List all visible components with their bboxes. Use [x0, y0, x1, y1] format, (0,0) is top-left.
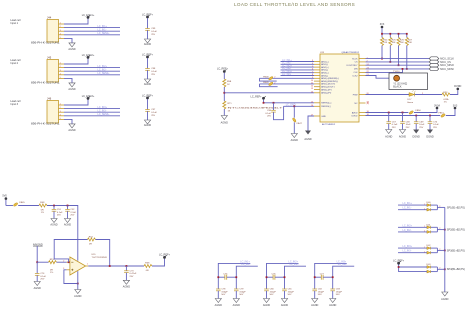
- svg-text:AGND: AGND: [399, 135, 406, 138]
- svg-text:LC_IN2+: LC_IN2+: [98, 65, 108, 68]
- svg-text:CLK: CLK: [353, 72, 358, 74]
- svg-text:AIN3(+): AIN3(+): [321, 72, 329, 75]
- svg-text:C98: C98: [151, 68, 156, 70]
- svg-text:C75: C75: [223, 273, 228, 275]
- svg-text:J46: J46: [47, 96, 52, 100]
- wire pin3 net LC_IN1-: [64, 28, 120, 31]
- svg-text:25V: 25V: [151, 74, 155, 76]
- wire C96 lower lead to LC_GND riser: [274, 106, 284, 119]
- ferrite bead FB45: [13, 202, 25, 207]
- capacitor C98 0.1uF 25V: [145, 68, 157, 76]
- svg-text:AIN5(-)/IOUT1: AIN5(-)/IOUT1: [321, 86, 335, 89]
- svg-text:GND: GND: [321, 116, 326, 118]
- svg-text:LC_REF+: LC_REF+: [159, 254, 171, 257]
- svg-text:0.1uF: 0.1uF: [265, 113, 271, 115]
- wire op-amp output: [88, 265, 144, 267]
- svg-text:AIN1(-): AIN1(-): [321, 63, 328, 66]
- node V- rail junction: [77, 283, 79, 285]
- node bus junction R26: [398, 64, 400, 66]
- svg-text:AIN3(-): AIN3(-): [321, 74, 328, 77]
- capacitor C79 150pF 50V: [234, 289, 246, 299]
- node CLK jog junction: [402, 68, 404, 70]
- capacitor C52 2.2uF 25V: [65, 206, 76, 219]
- pin 5 of J44: [59, 37, 65, 39]
- svg-text:DOUT/RDY: DOUT/RDY: [347, 65, 358, 67]
- wire C74 upper lead: [36, 262, 38, 273]
- svg-text:C96: C96: [267, 110, 272, 112]
- svg-text:LC_IN1+: LC_IN1+: [403, 202, 413, 205]
- capacitor C68 10uF 25V: [400, 113, 411, 130]
- resistor R24 10K: [381, 34, 389, 59]
- resistor R58 0R: [144, 263, 152, 272]
- wire net MCU_MISO: [366, 64, 430, 66]
- svg-text:0R: 0R: [146, 270, 149, 272]
- power LC_REF+ above C98: [142, 54, 154, 59]
- svg-text:3V3A: 3V3A: [434, 104, 440, 107]
- svg-text:5V0: 5V0: [2, 195, 7, 198]
- wire R58 to LC_REF+ power: [152, 259, 165, 266]
- pin AIN5(-)/IOUT1 of U13: [311, 85, 336, 88]
- pin 3 of J44: [59, 30, 65, 32]
- pin AIN6(-)/P0 of U13: [311, 92, 332, 95]
- svg-text:C97: C97: [151, 109, 156, 111]
- node bus junction R25: [389, 61, 391, 63]
- diode D40 dual: [427, 202, 432, 211]
- wire FB49 input stub: [260, 84, 278, 87]
- note: Load cell Input 1: [10, 19, 20, 25]
- pin 2 of J45: [59, 66, 65, 68]
- svg-text:LC_IN3-: LC_IN3-: [98, 109, 107, 112]
- svg-text:LC_REF+: LC_REF+: [217, 68, 229, 71]
- port MCU_CS: [429, 60, 451, 64]
- svg-text:856-PH-K-S227UNL: 856-PH-K-S227UNL: [31, 123, 60, 126]
- wire LC_GND down to FB47: [293, 106, 295, 117]
- pin CS of U13: [355, 61, 369, 64]
- power LC_REF+ output: [159, 254, 171, 259]
- node C67 junction: [388, 112, 390, 114]
- svg-text:AGND: AGND: [215, 304, 222, 307]
- wire net LC_IN2+ to U13: [281, 64, 315, 67]
- svg-text:0.1uF: 0.1uF: [151, 71, 157, 73]
- node rail junction R27: [406, 33, 408, 35]
- wire power stem to REFIN1+ net: [263, 100, 265, 103]
- svg-text:150pF: 150pF: [318, 291, 325, 293]
- svg-text:TLV271CDBVR: TLV271CDBVR: [92, 257, 108, 259]
- diode D42 dual: [427, 245, 432, 254]
- svg-text:R48: R48: [40, 202, 45, 204]
- wire FB50 to 3V3A power: [414, 109, 437, 112]
- capacitor C67 0.1uF 25V: [386, 113, 398, 130]
- svg-text:LC_EXC1+: LC_EXC1+: [82, 14, 95, 17]
- wire net LC_IN2- to U13: [281, 67, 315, 70]
- svg-text:C80: C80: [270, 289, 275, 291]
- resistor R52 0R: [88, 236, 96, 245]
- svg-text:RT1: RT1: [228, 103, 233, 105]
- wire D43 common to bus: [431, 267, 445, 272]
- svg-text:LC_REF+: LC_REF+: [393, 259, 405, 262]
- pin CLK of U13: [353, 71, 369, 74]
- wire C96 upper lead: [273, 103, 275, 111]
- capacitor C69 10uF 25V: [414, 116, 425, 130]
- svg-text:AGND: AGND: [441, 298, 448, 301]
- wire feedback right leg: [96, 240, 110, 267]
- svg-text:FB50: FB50: [416, 110, 422, 112]
- ground AGND under FB47: [291, 134, 298, 143]
- wire net LC_IN2- group 2: [285, 263, 307, 289]
- wire thermistor node to U13 AIN6: [224, 92, 314, 94]
- pin AIN5(+)/IOUT2 of U13: [311, 83, 336, 86]
- wire pin5 to ground: [64, 119, 72, 124]
- svg-text:LC_IN2-: LC_IN2-: [98, 68, 107, 71]
- wire pin4 net LC_SEN3+: [64, 113, 120, 116]
- wire power to C98: [147, 58, 149, 68]
- pin DIN of U13: [354, 68, 370, 71]
- wire pin4 net LC_SEN1+: [64, 32, 120, 35]
- svg-text:Input 1: Input 1: [10, 22, 18, 25]
- svg-text:13: 13: [311, 88, 314, 90]
- svg-text:0.1uF: 0.1uF: [392, 124, 398, 126]
- node LC_REF stem junction: [263, 102, 265, 104]
- wire LC_REF+ to D43 upper pin: [399, 266, 427, 268]
- svg-text:AGND: AGND: [281, 304, 288, 307]
- svg-text:NC: NC: [354, 103, 358, 105]
- pin REFIN1(+) of U13: [311, 102, 332, 105]
- svg-text:LC_SEN3+: LC_SEN3+: [98, 113, 111, 116]
- svg-text:C68: C68: [406, 122, 411, 124]
- wire net LC_IN3- group 3: [333, 263, 355, 289]
- node C51 junction: [53, 205, 55, 207]
- svg-text:25V: 25V: [151, 115, 155, 117]
- svg-text:25V: 25V: [151, 34, 155, 36]
- wire pin2 net LC_IN3+: [64, 106, 120, 109]
- svg-text:25V: 25V: [392, 127, 396, 129]
- svg-text:C79: C79: [239, 289, 244, 291]
- pin 1 of J45: [59, 63, 65, 65]
- wire pin2 net LC_IN1+: [64, 25, 120, 28]
- ground AGND under J45: [68, 83, 75, 91]
- wire U13 PSW row: [366, 94, 410, 96]
- node bus junction R24: [381, 58, 383, 60]
- ground AGND under C80: [263, 299, 270, 308]
- pin NC of U13: [354, 102, 369, 105]
- svg-text:AIN2(+): AIN2(+): [321, 66, 329, 69]
- wire net MCU_CS: [366, 61, 430, 63]
- svg-text:C77: C77: [320, 273, 325, 275]
- wire C99 to ground: [147, 30, 149, 39]
- svg-text:AGND: AGND: [34, 287, 41, 290]
- wire net LC_IN3+ to U13: [281, 70, 315, 73]
- ground AGND under J44: [68, 43, 75, 51]
- svg-text:0.1uF: 0.1uF: [151, 112, 157, 114]
- pin 3 of J46: [59, 111, 65, 113]
- svg-text:AGND: AGND: [311, 304, 318, 307]
- svg-text:U15: U15: [92, 254, 97, 256]
- svg-text:0.47uF: 0.47uF: [130, 273, 137, 275]
- pin DVDD of U13: [352, 114, 370, 117]
- node rail junction R26: [398, 33, 400, 35]
- svg-text:LC_IN1-: LC_IN1-: [403, 207, 412, 210]
- ground AGND under C73: [123, 280, 130, 288]
- pin AVDD of U13: [352, 111, 370, 114]
- svg-text:150pF: 150pF: [270, 291, 277, 293]
- svg-text:R52: R52: [89, 236, 94, 238]
- diode D43 dual: [427, 264, 432, 273]
- wire net LC_IN1+ group 1: [218, 260, 250, 289]
- svg-text:AGND: AGND: [291, 139, 298, 142]
- svg-text:AGND: AGND: [221, 122, 228, 125]
- wire pin5 to ground: [64, 78, 72, 83]
- node C76 left junction: [266, 276, 268, 278]
- ground AGND under C99: [144, 39, 151, 46]
- wire AVDD rail: [366, 112, 409, 114]
- svg-text:R73: R73: [443, 92, 448, 94]
- pin 5 of J46: [59, 118, 65, 120]
- svg-text:10: 10: [311, 80, 314, 82]
- pin 1 of J46: [59, 104, 65, 106]
- pin 5 of J45: [59, 77, 65, 79]
- capacitor C51 0.1uF 25V: [52, 206, 63, 219]
- svg-text:FB48: FB48: [263, 76, 269, 78]
- power LC_EXC1+: [82, 14, 95, 19]
- pin 4 of J46: [59, 114, 65, 116]
- wire pin3 net LC_IN3-: [64, 109, 120, 112]
- capacitor C99 0.1uF 25V: [145, 28, 157, 36]
- node rail junction R25: [389, 33, 391, 35]
- svg-text:LC_SEN1+: LC_SEN1+: [98, 32, 111, 35]
- wire net LC_IN1- to U13: [281, 62, 315, 65]
- wire op-amp V- to ground: [77, 271, 79, 289]
- svg-text:50V: 50V: [336, 294, 340, 296]
- svg-text:TY010: TY010: [393, 71, 400, 73]
- svg-text:AGND: AGND: [64, 224, 71, 227]
- wire RT1 to ground: [223, 109, 225, 116]
- ground AGND under C81: [281, 299, 288, 308]
- capacitor C77 bridge: [315, 273, 333, 279]
- wire pin1 to excitation power: [64, 100, 88, 105]
- svg-text:0.1uF: 0.1uF: [57, 212, 63, 214]
- wire D42 common to bus: [431, 248, 445, 253]
- svg-text:LC_REF+: LC_REF+: [142, 95, 154, 98]
- svg-text:J44: J44: [47, 15, 52, 19]
- svg-text:AD7794BRUZ: AD7794BRUZ: [322, 123, 336, 126]
- node FB47 junction: [293, 105, 295, 107]
- svg-text:1K: 1K: [228, 110, 231, 112]
- svg-text:SP1(B1+B2,PS): SP1(B1+B2,PS): [447, 206, 465, 209]
- capacitor C97 0.1uF 25V: [145, 109, 157, 117]
- wire R48 to op-amp V+: [47, 206, 78, 261]
- ferrite bead FB50: [409, 110, 422, 114]
- wire power to C99: [147, 18, 149, 28]
- svg-text:LC_SEN2+: LC_SEN2+: [98, 72, 111, 75]
- op-amp/ADC U13 AD7794BRUZ body: [320, 51, 360, 126]
- svg-text:0.1uF: 0.1uF: [151, 31, 157, 33]
- wire C97 to ground: [147, 111, 149, 120]
- svg-text:25V: 25V: [40, 279, 44, 281]
- power LC_REF+ above C99: [142, 14, 154, 19]
- pin CLK2 of U13: [352, 74, 369, 77]
- svg-text:1%: 1%: [41, 212, 44, 214]
- svg-text:LC_IN2-: LC_IN2-: [290, 263, 299, 266]
- svg-text:DGND: DGND: [413, 135, 421, 138]
- svg-text:AGND: AGND: [144, 124, 151, 127]
- node C52 junction: [67, 205, 69, 207]
- pin 2 of J44: [59, 26, 65, 28]
- wire net LC_IN1+ to D40: [398, 202, 427, 206]
- pin AIN3(-) of U13: [312, 74, 328, 77]
- svg-text:AGND: AGND: [50, 224, 57, 227]
- diode D41 dual: [427, 224, 432, 233]
- capacitor C76 bridge: [267, 273, 285, 279]
- wire FB51 to 3V3 power: [446, 109, 455, 115]
- resistor R27 10K: [405, 34, 413, 69]
- power LC_REF+ above R5B: [217, 68, 229, 73]
- svg-text:FB51: FB51: [439, 112, 445, 114]
- svg-text:50V: 50V: [221, 294, 225, 296]
- node REFIN junction: [223, 92, 225, 94]
- svg-text:LC_IN3-: LC_IN3-: [403, 250, 412, 253]
- LED D17 Green: [407, 90, 424, 104]
- ground AGND under C68: [399, 130, 406, 139]
- wire U13 GND pin to ground: [308, 116, 314, 131]
- svg-text:150pF: 150pF: [239, 291, 246, 293]
- svg-text:1%: 1%: [444, 102, 447, 104]
- wire C98 to ground: [147, 70, 149, 79]
- svg-text:AGND: AGND: [68, 88, 75, 91]
- svg-text:C69: C69: [419, 122, 424, 124]
- svg-text:C67: C67: [392, 122, 397, 124]
- pin AIN1(-) of U13: [312, 63, 328, 66]
- svg-text:AIN4(-)/REFIN2(-): AIN4(-)/REFIN2(-): [321, 80, 338, 83]
- wire non-inverting input to V- rail: [64, 270, 78, 284]
- connector J44: [31, 15, 60, 44]
- connector J46: [31, 96, 60, 125]
- node bus D41: [444, 229, 446, 231]
- svg-text:FB45: FB45: [19, 202, 25, 204]
- svg-text:0R: 0R: [89, 243, 92, 245]
- svg-text:AIN5(+)/IOUT2: AIN5(+)/IOUT2: [321, 83, 336, 86]
- svg-text:REFIN1(-): REFIN1(-): [321, 106, 331, 108]
- svg-text:AGND: AGND: [74, 295, 81, 298]
- svg-text:1: 1: [87, 264, 89, 266]
- ground AGND under RT1: [221, 116, 228, 125]
- capacitor C74 0.1uF 25V: [35, 273, 47, 281]
- svg-text:25V: 25V: [70, 215, 74, 217]
- wire D41 common to bus: [431, 227, 445, 232]
- resistor R26 10K: [397, 34, 405, 65]
- pin SCLK of U13: [352, 57, 368, 60]
- wire node to R112: [37, 261, 48, 263]
- svg-text:3V3: 3V3: [453, 104, 458, 107]
- ground AGND under C82: [311, 299, 318, 308]
- wire net LC_GND to U13 REFIN1-: [284, 103, 314, 106]
- node bus D43: [444, 268, 446, 270]
- svg-text:MCU_MISO: MCU_MISO: [440, 64, 454, 67]
- svg-text:AIN6(+)/P1: AIN6(+)/P1: [321, 88, 332, 91]
- svg-text:10uF: 10uF: [406, 124, 412, 126]
- wire AINGND down to R112 node: [36, 246, 38, 262]
- port MCU_MOSI: [429, 67, 454, 71]
- svg-text:LC_IN2-: LC_IN2-: [403, 229, 412, 232]
- svg-text:AIN2(-): AIN2(-): [321, 69, 328, 72]
- wire net LC_IN2+ group 2: [267, 260, 299, 289]
- wire REFIN1+ to U13: [264, 102, 315, 104]
- ground AGND under J46: [68, 124, 75, 132]
- svg-text:0.1uF: 0.1uF: [433, 124, 439, 126]
- svg-text:C78: C78: [221, 289, 226, 291]
- wire D40 common to bus: [431, 205, 445, 210]
- svg-text:C83: C83: [336, 289, 341, 291]
- wire net LC_IN3+ to D42: [398, 245, 427, 249]
- svg-text:R58: R58: [145, 263, 150, 265]
- svg-text:10uF: 10uF: [419, 124, 425, 126]
- wire net LC_IN3- to D42: [398, 250, 427, 254]
- svg-text:LC_IN1-: LC_IN1-: [241, 263, 250, 266]
- capacitor C81 150pF 50V: [282, 289, 294, 299]
- capacitor C75 bridge: [218, 273, 236, 279]
- wire pin5 to ground: [64, 38, 72, 43]
- node R112/C74 junction: [36, 261, 38, 263]
- svg-text:Input 2: Input 2: [10, 62, 18, 65]
- svg-text:LC_IN3+: LC_IN3+: [403, 245, 413, 248]
- power DVDD: [454, 85, 461, 90]
- svg-text:LC_REF+: LC_REF+: [251, 95, 263, 98]
- wire pin4 net LC_SEN2+: [64, 72, 120, 75]
- svg-text:50V: 50V: [239, 294, 243, 296]
- power LC_EXC2+: [82, 54, 95, 59]
- svg-text:3V3: 3V3: [380, 23, 385, 26]
- svg-text:2.2uF: 2.2uF: [70, 212, 76, 214]
- svg-text:DVDD: DVDD: [454, 85, 461, 88]
- node LC_REF+ junction: [398, 266, 400, 268]
- svg-text:50V: 50V: [318, 294, 322, 296]
- capacitor C73 0.47uF 25V: [124, 266, 137, 280]
- svg-text:PSW: PSW: [353, 94, 358, 96]
- node C96 top junction: [273, 102, 275, 104]
- capacitor C78 150pF 50V: [216, 289, 228, 299]
- wire net LC_IN1- to D40: [398, 207, 427, 211]
- pin PSW of U13: [353, 93, 370, 96]
- svg-text:LC_REF+: LC_REF+: [142, 14, 154, 17]
- ferrite bead FB49: [260, 82, 315, 86]
- node feedback output junction: [109, 265, 111, 267]
- wire U13 CLK2 to crystal Y1: [366, 76, 394, 79]
- svg-text:C81: C81: [288, 289, 293, 291]
- svg-text:LOAD CELL THROTTLE/ID LEVEL AN: LOAD CELL THROTTLE/ID LEVEL AND SENSORS: [234, 2, 355, 7]
- wire LC_REF+ to D43 pins: [399, 265, 427, 272]
- wire net LC_IN2+ to D41: [398, 224, 427, 228]
- svg-text:C73: C73: [130, 271, 135, 273]
- svg-text:12: 12: [311, 85, 314, 87]
- wire pin2 net LC_IN2+: [64, 65, 120, 68]
- power 5V0: [2, 195, 7, 206]
- svg-text:AGND: AGND: [263, 304, 270, 307]
- svg-text:MCU_MOSI: MCU_MOSI: [440, 68, 454, 71]
- svg-text:25V: 25V: [433, 127, 437, 129]
- svg-text:150pF: 150pF: [221, 291, 228, 293]
- svg-text:AGND: AGND: [68, 48, 75, 51]
- resistor R25 10K: [389, 34, 397, 62]
- node C70 junction: [429, 115, 431, 117]
- svg-text:0.1uF: 0.1uF: [40, 276, 46, 278]
- svg-text:REFIN1(+): REFIN1(+): [321, 103, 331, 105]
- svg-text:LC_IN3+: LC_IN3+: [98, 106, 108, 109]
- capacitor C70 0.1uF 25V: [428, 116, 440, 130]
- wire FB48 input stub: [260, 78, 277, 81]
- ground AGND under C51: [50, 219, 57, 227]
- pin AIN2(+) of U13: [312, 66, 329, 69]
- resistor R48 0R 1%: [39, 202, 47, 214]
- svg-text:10K: 10K: [400, 42, 404, 44]
